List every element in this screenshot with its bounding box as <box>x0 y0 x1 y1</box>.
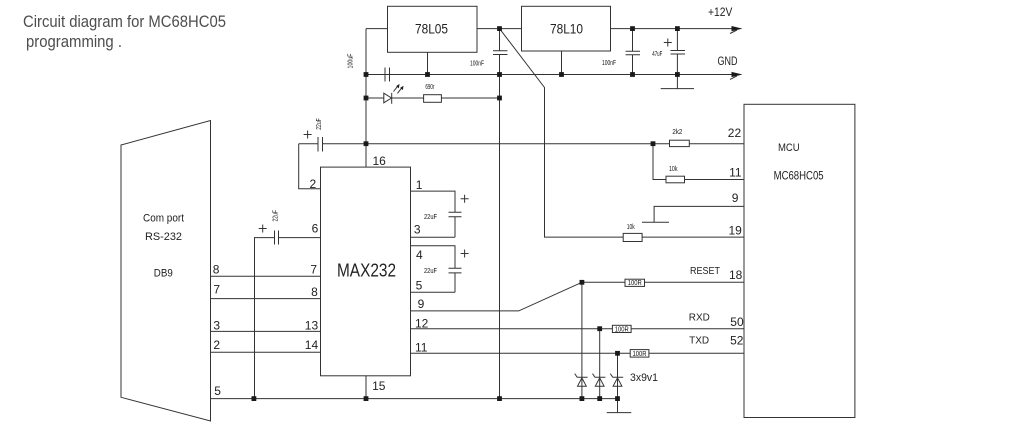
svg-text:7: 7 <box>310 263 317 277</box>
svg-text:15: 15 <box>372 379 386 393</box>
svg-text:100R: 100R <box>615 326 629 333</box>
svg-text:11: 11 <box>729 165 742 179</box>
svg-text:5: 5 <box>214 384 221 398</box>
svg-text:22: 22 <box>728 126 742 140</box>
svg-text:14: 14 <box>305 338 319 352</box>
svg-text:50: 50 <box>730 315 744 329</box>
svg-text:100R: 100R <box>633 351 647 358</box>
svg-text:13: 13 <box>305 318 319 332</box>
svg-text:8: 8 <box>213 263 220 277</box>
svg-text:9: 9 <box>418 297 425 311</box>
svg-text:16: 16 <box>373 154 387 168</box>
svg-text:11: 11 <box>415 340 428 354</box>
svg-text:22uF: 22uF <box>316 118 323 130</box>
svg-text:+12V: +12V <box>708 5 732 19</box>
svg-text:10k: 10k <box>669 166 678 173</box>
svg-text:6: 6 <box>312 221 319 235</box>
svg-text:18: 18 <box>729 268 743 282</box>
svg-text:2: 2 <box>213 338 220 352</box>
svg-text:12: 12 <box>415 316 429 330</box>
svg-text:TXD: TXD <box>689 335 709 346</box>
svg-text:3: 3 <box>213 319 220 333</box>
svg-text:3x9v1: 3x9v1 <box>630 372 658 384</box>
svg-text:MC68HC05: MC68HC05 <box>774 169 824 183</box>
svg-text:22uF: 22uF <box>273 210 280 222</box>
svg-text:programming .: programming . <box>26 32 122 51</box>
svg-text:47uF: 47uF <box>652 51 662 58</box>
svg-text:9: 9 <box>732 191 739 205</box>
svg-text:2k2: 2k2 <box>672 129 682 136</box>
svg-text:RESET: RESET <box>690 266 720 277</box>
svg-text:100R: 100R <box>628 280 642 287</box>
svg-text:19: 19 <box>729 224 743 238</box>
svg-text:Circuit diagram for MC68HC05: Circuit diagram for MC68HC05 <box>23 12 226 31</box>
svg-text:5: 5 <box>416 278 423 292</box>
svg-text:4: 4 <box>416 248 423 262</box>
svg-text:52: 52 <box>730 334 744 348</box>
svg-text:100nF: 100nF <box>602 60 616 67</box>
svg-text:78L10: 78L10 <box>550 20 583 36</box>
svg-text:1: 1 <box>416 178 423 192</box>
svg-text:78L05: 78L05 <box>415 20 448 36</box>
svg-text:DB9: DB9 <box>154 267 173 279</box>
svg-text:100uF: 100uF <box>348 54 355 69</box>
svg-text:22uF: 22uF <box>424 268 437 275</box>
svg-text:100nF: 100nF <box>470 61 484 68</box>
svg-text:7: 7 <box>213 282 220 296</box>
svg-text:RXD: RXD <box>689 313 710 324</box>
svg-text:22uF: 22uF <box>424 214 437 221</box>
svg-text:8: 8 <box>311 285 318 299</box>
svg-text:MCU: MCU <box>778 142 800 154</box>
svg-text:RS-232: RS-232 <box>145 231 182 243</box>
svg-text:3: 3 <box>414 223 421 237</box>
svg-text:MAX232: MAX232 <box>337 261 396 281</box>
svg-text:2: 2 <box>310 177 317 191</box>
svg-text:GND: GND <box>718 54 738 68</box>
svg-text:690r: 690r <box>425 84 434 91</box>
svg-text:10k: 10k <box>627 224 635 231</box>
svg-text:Com port: Com port <box>143 213 184 225</box>
